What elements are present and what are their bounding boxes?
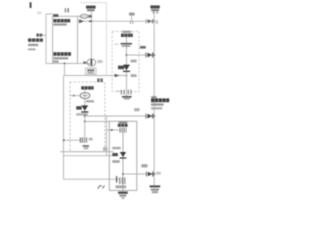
ground bars under T2 [83, 145, 89, 147]
wire chain to rail B [127, 54, 155, 56]
label 17 above U box [65, 8, 66, 12]
dark label 2A in L5 [112, 153, 118, 156]
diode D4 down [120, 152, 126, 157]
L5 text faint row [119, 121, 128, 123]
faint text under D4 [112, 160, 119, 163]
node dot chain mid [126, 54, 128, 56]
rail B vertical right [153, 11, 155, 185]
left long vertical wire [63, 76, 65, 180]
feed wire horizontal [64, 75, 127, 77]
oval around railA junction [87, 59, 96, 66]
junction blob at fuse right [89, 15, 92, 18]
block text row1 dark [53, 19, 70, 22]
node dot at left rail [63, 139, 65, 141]
node dot rail B mid [153, 54, 155, 56]
chain wire C1 [126, 37, 128, 96]
output text block right [151, 96, 156, 98]
faint label C25 [131, 74, 137, 77]
wire tick from label to bus [42, 34, 46, 36]
faint text L5 bottom [116, 185, 127, 188]
block text row2 faint [53, 23, 66, 25]
chain wire C3 [122, 133, 124, 192]
cap in L5 top [109, 129, 119, 131]
arrow on wire 2 [79, 19, 84, 23]
capacitor tick from label [131, 16, 133, 22]
power symbol P1 top middle [86, 6, 96, 9]
faint label C24 [131, 60, 137, 63]
input text row faint 1 [28, 44, 38, 46]
oval component T1 [80, 93, 90, 99]
arrow before railA junction [83, 61, 87, 64]
wire from box bottom to railA [78, 63, 92, 65]
label 2A dark [118, 66, 124, 70]
faint smudge near top-left [37, 12, 42, 15]
right connector vertical [105, 116, 107, 156]
ground under L5 [118, 192, 128, 194]
loop wire 1 [60, 151, 114, 153]
figure number 1 [30, 2, 32, 8]
capacitor C21 label tick [115, 43, 119, 45]
node dot rail B [153, 115, 155, 117]
wire chain2 to box L5 top [85, 121, 109, 123]
node dot at L2 edge [73, 95, 75, 97]
label U4A [53, 14, 58, 17]
dashed box L2 [70, 82, 105, 152]
L4 top text dark row [121, 34, 133, 37]
faint label left of L5 [103, 147, 108, 151]
diode at rail B on this wire [145, 114, 147, 119]
wire to rail B mid [85, 115, 154, 117]
input text row faint 2 [28, 48, 36, 50]
L4 top text faint row [122, 31, 131, 33]
diode D2 down [123, 65, 130, 71]
low cap in L5 [116, 176, 118, 183]
drop wire from node to feed line [64, 64, 66, 76]
capacitor ticks below wire2 [129, 21, 131, 24]
wire down to oval2 [84, 122, 86, 138]
faint label right of rail [156, 20, 158, 24]
faint label in L5 [112, 147, 120, 149]
polar cap at rail B low [145, 172, 147, 177]
label near L4 corner [134, 108, 139, 111]
box L5 [109, 121, 137, 190]
node dot wire2/railA [89, 20, 91, 22]
op block U1 box [53, 16, 78, 63]
diode D1 at right rail on wire2 [145, 19, 147, 23]
node dot railA bottom [90, 63, 92, 65]
node dot wire2 right [153, 20, 155, 22]
faint routed wire top [80, 3, 106, 76]
polar cap plates at rail B [145, 52, 147, 57]
L5 text dark row [118, 124, 128, 127]
wire from box top to rail A [78, 15, 92, 17]
faint label left of rail low [141, 164, 147, 167]
node dot rail B low [153, 173, 155, 175]
faint label right of oval [97, 60, 102, 63]
capacitor bank C2x [79, 138, 81, 143]
label 2A chain2 [76, 106, 82, 109]
faint text under D3 [76, 113, 88, 115]
ground at rail B bottom [150, 185, 161, 187]
wire into cap bank T2 [64, 139, 80, 141]
chain wire C2 [84, 90, 86, 122]
node dot railA wire1 [91, 15, 93, 17]
cap pair at chain bottom [116, 90, 120, 92]
dashed box L4 [112, 31, 139, 91]
loop wire 2 [64, 155, 116, 157]
rail A vertical [90, 11, 92, 66]
wire L5 to rail B low [123, 173, 154, 175]
node dot on box bottom [64, 63, 66, 65]
faint label right of rail low [156, 172, 161, 175]
power symbol P2 top right [150, 5, 159, 8]
fuse F1 [80, 14, 88, 18]
label C22 [140, 46, 146, 49]
diode D3 down [81, 105, 88, 110]
node dot feed wire end [126, 75, 128, 77]
node dot railA wire2 [91, 20, 93, 22]
tick into box L5 [106, 129, 109, 131]
faint label right of oval [86, 100, 94, 102]
loop wire 3 bottom [64, 178, 120, 180]
capacitor C label on wire2 [129, 13, 135, 16]
block text row3 dark [53, 52, 71, 56]
node dot chain2 lower [84, 121, 86, 123]
ground under chain C1 [122, 96, 132, 98]
GND box under railA [86, 68, 97, 74]
node dot in L5 [122, 173, 124, 175]
label L2 at corner [97, 78, 99, 82]
wire 2 from box to right rail [78, 20, 155, 22]
input bus wire (left bracket) [46, 14, 53, 64]
faint plus mark right [89, 138, 93, 141]
capacitor C21 plates [121, 43, 132, 45]
block small label Tap [53, 60, 58, 62]
wire into oval [70, 95, 80, 97]
node label X1 [36, 34, 42, 37]
arrow on feed wire [115, 74, 120, 78]
input text row dark [28, 38, 43, 41]
squiggle mark bottom [98, 186, 105, 189]
L2 text row dark [81, 86, 93, 89]
node dot chain2 [84, 115, 86, 117]
block text row4 faint [53, 57, 68, 59]
